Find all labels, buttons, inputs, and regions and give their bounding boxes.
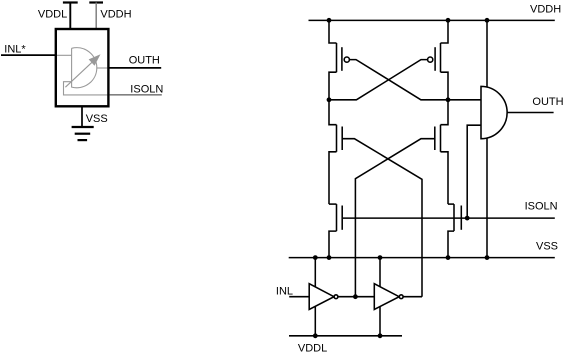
node VSS-right-leg (446, 255, 451, 260)
wire VSS pin (81, 107, 83, 127)
supply cap bar VDDL (63, 1, 78, 3)
wire inverter U3 bottom power pin (379, 306, 381, 336)
node VDDH-gate (485, 18, 490, 23)
Q6 channel (453, 204, 455, 231)
svg-text:INL*: INL* (4, 43, 26, 55)
level-shifter D body (72, 48, 97, 88)
Q1 channel (336, 43, 338, 72)
wire Q3 gate cross-couple (343, 139, 422, 297)
wire VSS rail (289, 257, 555, 259)
Q2 channel (440, 43, 442, 72)
wire Q1 drain leg (329, 72, 337, 100)
level shifter symbol (gray D with arrow) (55, 48, 110, 95)
wire Q2 source leg (441, 20, 449, 43)
wire U3 output (403, 296, 422, 298)
level-shifter arrowhead (90, 55, 100, 64)
wire Q2 drain leg (441, 72, 449, 100)
wire ISOLN output (gray) (110, 94, 162, 96)
block body U0 (56, 29, 109, 106)
wire VDDH pin (gray) (95, 3, 97, 30)
transistor Q6 NMOS isolation right (448, 204, 461, 258)
supply cap bar VDDH (89, 1, 103, 3)
wire VDDL rail (289, 335, 402, 337)
Q6 gate bar (460, 206, 462, 230)
inverter U2 (309, 284, 334, 310)
wire inverter U2 top power pin (314, 258, 316, 289)
svg-text:OUTH: OUTH (129, 55, 160, 67)
wire Q4 source leg (441, 152, 449, 204)
wire Q1 source leg (329, 20, 337, 43)
wire Q6 source leg (448, 231, 454, 258)
svg-text:ISOLN: ISOLN (130, 83, 163, 95)
svg-text:VDDH: VDDH (100, 8, 131, 20)
Q2 gate bar (434, 47, 436, 71)
transistor Q3 NMOS latch left (329, 100, 422, 297)
Q4 channel (440, 125, 442, 152)
wire internal isoln L-path (64, 82, 110, 95)
svg-text:VDDL: VDDL (38, 8, 67, 20)
node drain-right (446, 97, 451, 102)
svg-text:VDDL: VDDL (298, 343, 327, 355)
node VSS-gate (485, 255, 490, 260)
transistor Q5 NMOS isolation left (329, 204, 342, 258)
wire Q4 gate cross-couple (355, 139, 434, 297)
Q2 bubble (428, 57, 433, 62)
node VSS-inv2 (378, 255, 383, 260)
Q3 gate bar (341, 127, 343, 151)
node VDDH-right (446, 18, 451, 23)
wire internal output (97, 67, 110, 69)
node drain-left (327, 97, 332, 102)
transistor Q1 PMOS left (329, 20, 448, 99)
node VSS-inv1 (313, 255, 318, 260)
node VSS-left-leg (327, 255, 332, 260)
node ISOLN-junction (465, 216, 470, 221)
svg-text:ISOLN: ISOLN (525, 201, 558, 213)
wire ISOLN to gate B vertical (467, 125, 481, 218)
wire internal input (55, 54, 72, 56)
wire and-gate bottom power pin (486, 130, 488, 258)
wire Q1 gate cross-couple (349, 60, 448, 100)
wire OUTH output (108, 67, 162, 69)
wire and-gate top power pin (486, 20, 488, 100)
ground (72, 127, 94, 140)
svg-text:VSS: VSS (86, 113, 108, 125)
node VDDL-inv2 (378, 333, 383, 338)
svg-text:VDDH: VDDH (530, 4, 561, 16)
wire Q4 drain leg (441, 100, 449, 125)
svg-text:VSS: VSS (536, 240, 558, 252)
wire inverter U2 bottom power pin (314, 306, 316, 336)
wire OUTH output (507, 112, 553, 114)
Q5 gate bar (341, 206, 343, 230)
wire inverter U3 top power pin (379, 258, 381, 289)
wire VDDH rail (309, 19, 555, 21)
wire Q6 drain leg (448, 203, 454, 205)
wire Q2 gate cross-couple (329, 60, 428, 100)
svg-text:OUTH: OUTH (532, 96, 563, 108)
wire Q3 source leg (329, 152, 337, 204)
wire Q5 source leg (329, 231, 337, 258)
Q1 bubble (344, 57, 349, 62)
wire U2 output (338, 296, 374, 298)
Q1 gate bar (341, 47, 343, 71)
transistor Q4 NMOS latch right (355, 100, 448, 297)
wire INL* input (1, 54, 56, 56)
node inv1-out (353, 294, 358, 299)
inverter U2 bubble (334, 295, 338, 299)
wire and-gate input A (448, 99, 481, 101)
op-amp U1 and-gate body (481, 86, 507, 138)
inverter U3 bubble (399, 295, 403, 299)
wire Q5 drain leg (329, 203, 337, 205)
wire INL input (289, 296, 309, 298)
Q5 channel (336, 204, 338, 231)
Q4 gate bar (434, 127, 436, 151)
wire VDDL pin (69, 3, 71, 30)
wire ISOLN net (343, 217, 555, 219)
wire Q3 drain leg (329, 100, 337, 125)
node VDDH-left (327, 18, 332, 23)
svg-text:INL: INL (276, 285, 293, 297)
Q3 channel (336, 125, 338, 152)
transistor Q2 PMOS right (329, 20, 448, 99)
node VDDL-inv1 (313, 333, 318, 338)
inverter U3 (374, 284, 399, 310)
level-shifter arrow shaft (65, 62, 92, 87)
